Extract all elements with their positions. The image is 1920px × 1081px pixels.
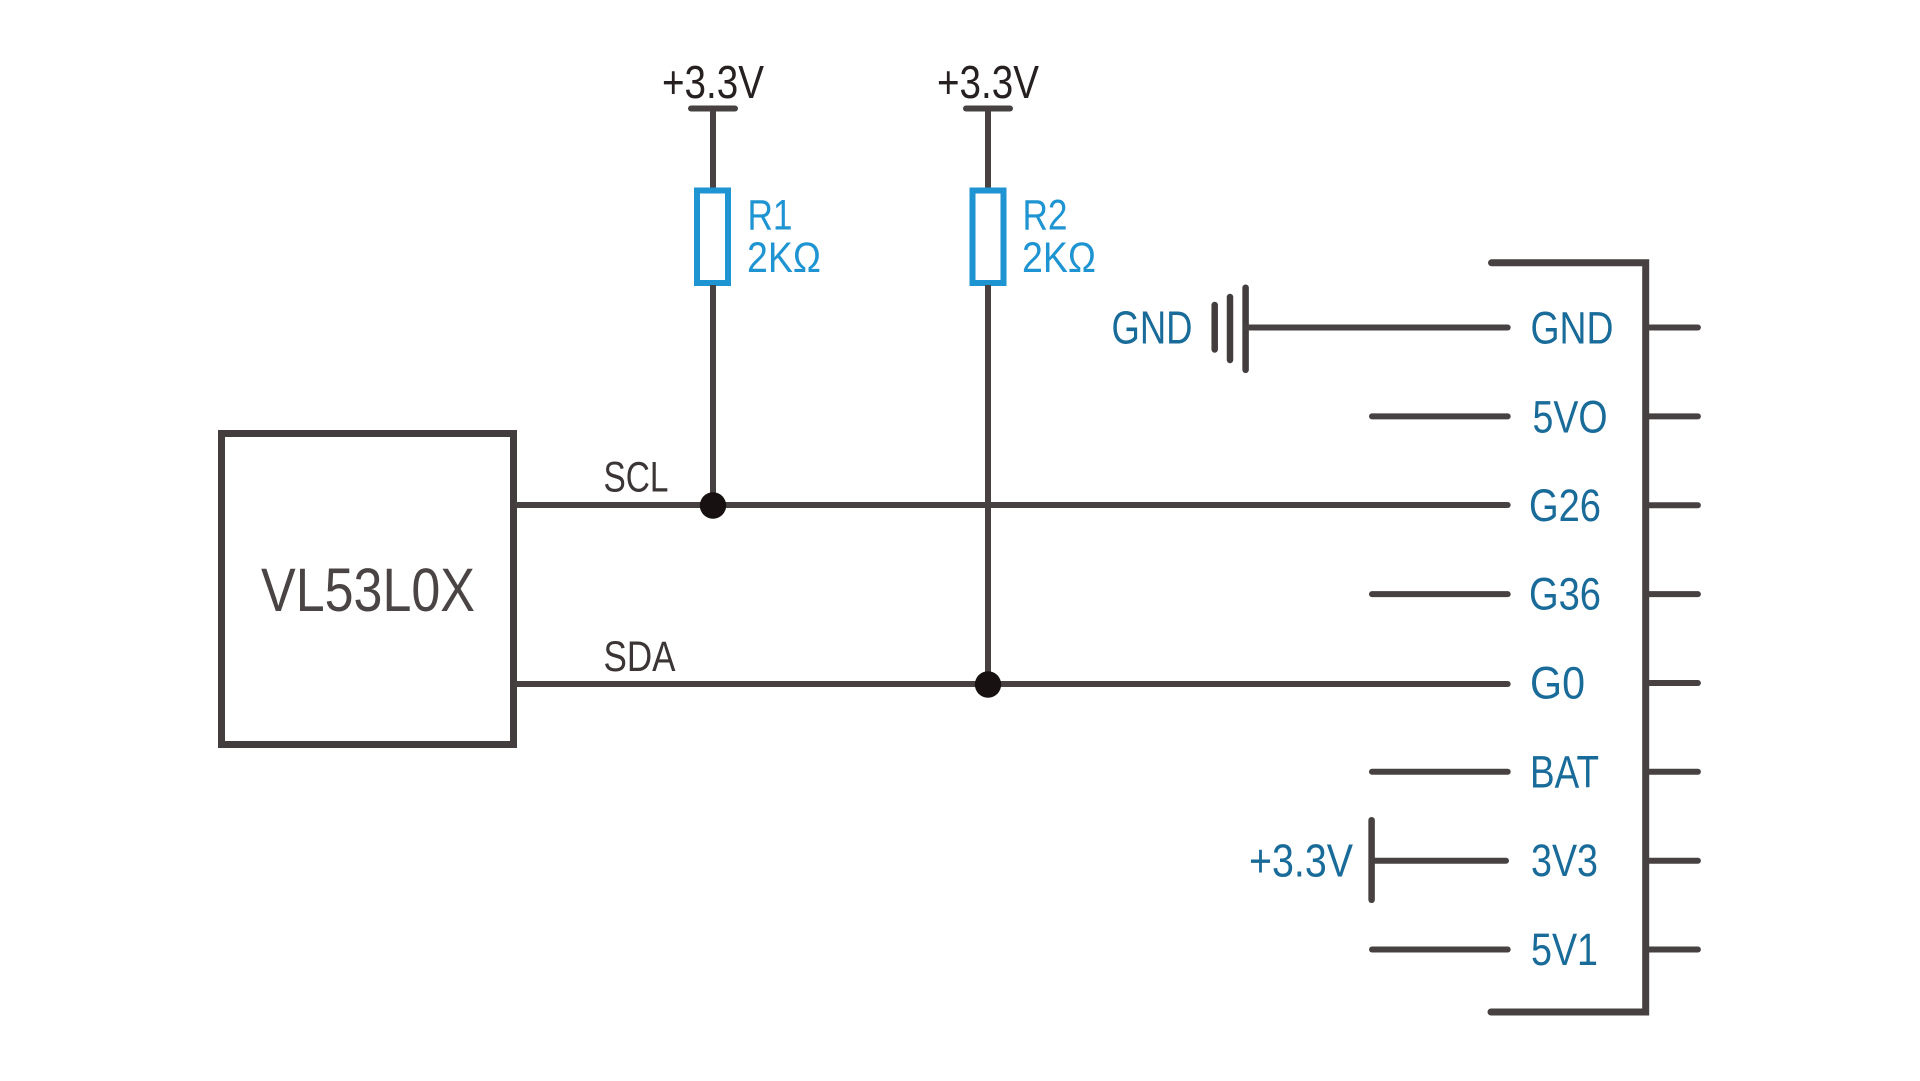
- pin G26 stub (right): [1646, 502, 1698, 508]
- pin 5VO stub (right): [1646, 413, 1698, 419]
- wire supply to R1: [710, 110, 716, 189]
- connector J1 body: [1491, 263, 1646, 1012]
- svg-text:+3.3V: +3.3V: [662, 56, 764, 108]
- power +3.3V symbol bar (R1 supply): [691, 106, 735, 112]
- svg-text:SDA: SDA: [604, 633, 676, 681]
- svg-text:GND: GND: [1112, 302, 1193, 354]
- wire R2 to SDA node: [985, 285, 991, 684]
- wire 5VO pin stub (left): [1372, 413, 1508, 419]
- pin BAT stub (right): [1646, 769, 1698, 775]
- power +3.3V symbol bar (R2 supply): [966, 106, 1010, 112]
- ground symbol: [1215, 288, 1246, 370]
- svg-text:G36: G36: [1529, 569, 1601, 620]
- pin GND stub (right): [1646, 325, 1698, 331]
- svg-text:+3.3V: +3.3V: [1249, 835, 1353, 887]
- wire +3.3V to 3V3 pin: [1372, 858, 1506, 864]
- svg-text:3V3: 3V3: [1531, 835, 1598, 886]
- resistor R1: [697, 191, 728, 284]
- svg-text:2KΩ: 2KΩ: [1022, 234, 1096, 282]
- svg-text:G0: G0: [1530, 658, 1585, 709]
- wire G36 pin stub (left): [1372, 591, 1508, 597]
- node SCL junction dot: [700, 492, 726, 518]
- wire BAT pin stub (left): [1372, 769, 1508, 775]
- svg-text:BAT: BAT: [1530, 747, 1599, 798]
- IC U1 VL53L0X: [222, 434, 514, 745]
- wire R1 to SCL node: [710, 285, 716, 505]
- pin 5V1 stub (right): [1646, 947, 1698, 953]
- wire 5V1 pin stub (left): [1372, 947, 1508, 953]
- svg-text:5V1: 5V1: [1531, 924, 1598, 975]
- svg-text:R1: R1: [748, 192, 793, 240]
- svg-text:SCL: SCL: [604, 454, 669, 502]
- pin 3V3 stub (right): [1646, 858, 1698, 864]
- svg-text:2KΩ: 2KΩ: [747, 234, 821, 282]
- resistor R2: [973, 191, 1004, 284]
- svg-text:5VO: 5VO: [1533, 392, 1608, 443]
- pin G0 stub (right): [1646, 680, 1698, 686]
- wire SCL (VL53L0X to G26): [517, 502, 1508, 508]
- node SDA junction dot: [975, 671, 1001, 697]
- pin G36 stub (right): [1646, 591, 1698, 597]
- wire supply to R2: [985, 110, 991, 189]
- svg-text:R2: R2: [1023, 192, 1068, 240]
- wire SDA (VL53L0X to G0): [517, 681, 1508, 687]
- svg-text:VL53L0X: VL53L0X: [261, 556, 475, 624]
- power +3.3V symbol bar (3V3 pin): [1368, 820, 1375, 900]
- svg-text:GND: GND: [1531, 303, 1614, 354]
- svg-text:+3.3V: +3.3V: [937, 56, 1039, 108]
- wire ground to GND pin: [1246, 325, 1508, 331]
- svg-text:G26: G26: [1529, 480, 1601, 531]
